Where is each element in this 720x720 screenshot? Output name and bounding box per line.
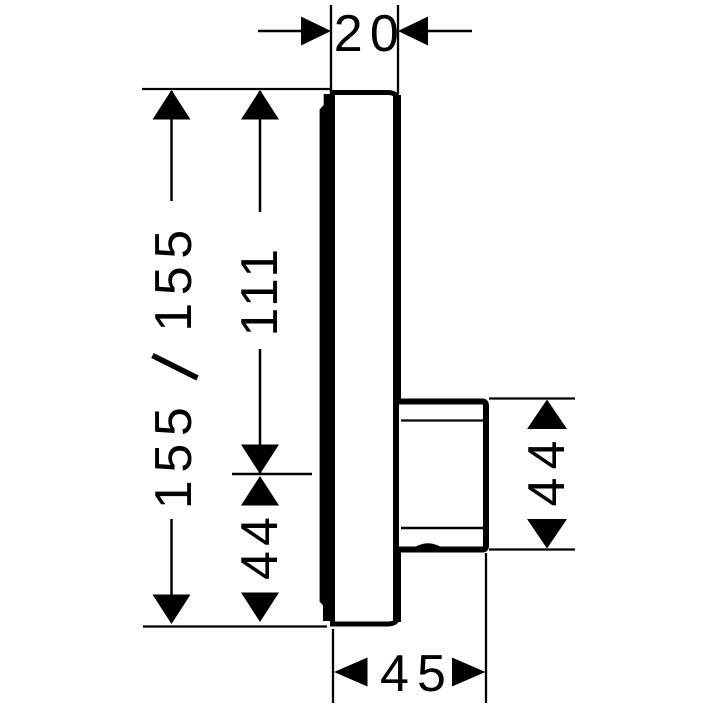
dim 155 tail top: [170, 91, 173, 201]
valve box inner line bottom: [401, 527, 484, 530]
plate right edge thick line: [393, 95, 401, 622]
dim 44 right arrow down: [527, 519, 567, 549]
dim 155/155 slash: [153, 356, 198, 379]
svg-text:155: 155: [145, 400, 203, 510]
dim 155 arrow top: [153, 90, 191, 120]
dim 111 tail bottom: [259, 349, 262, 473]
svg-text:4 4: 4 4: [231, 518, 289, 580]
svg-text:45: 45: [380, 645, 454, 703]
dim 155 arrow bottom: [153, 595, 191, 625]
plate left wall bar: [320, 94, 335, 621]
dim 44 right extension line top: [489, 397, 575, 399]
dim 20 arrow left: [301, 17, 331, 46]
dim 45 arrow right: [452, 658, 486, 687]
dim 20 extension line right: [397, 5, 399, 94]
dim 20 extension line left: [330, 5, 332, 94]
valve box inner line top: [401, 419, 484, 421]
dim 45 extension line left: [332, 629, 334, 703]
valve box body: [399, 402, 486, 550]
dim 44 right arrow up: [527, 400, 567, 430]
dim 45 extension line right: [485, 553, 487, 703]
svg-text:111: 111: [231, 248, 289, 336]
dim 155 tail bottom: [170, 519, 173, 622]
dim 20 tail right: [426, 30, 472, 33]
dim 44 left arrow up: [241, 476, 279, 506]
dim 111/44 tick line: [232, 473, 312, 476]
dim 45 arrow left: [334, 658, 368, 687]
dim 20 arrow right: [398, 17, 428, 46]
svg-text:155: 155: [145, 222, 203, 332]
dim 44 right extension line bottom: [489, 548, 575, 550]
svg-text:20: 20: [334, 5, 406, 63]
dim 44 left arrow down: [241, 593, 279, 623]
dim 111 arrow top: [241, 90, 279, 120]
dim 111 arrow bottom: [241, 445, 279, 475]
valve box bottom bump: [415, 543, 441, 547]
dim 20 tail left: [258, 30, 303, 33]
dim 155 extension line bottom: [143, 625, 327, 627]
dim 111 tail top: [259, 91, 262, 212]
plate body (escutcheon side view): [333, 93, 399, 625]
svg-text:4 4: 4 4: [518, 442, 576, 507]
dim 155 extension line top: [142, 88, 330, 90]
